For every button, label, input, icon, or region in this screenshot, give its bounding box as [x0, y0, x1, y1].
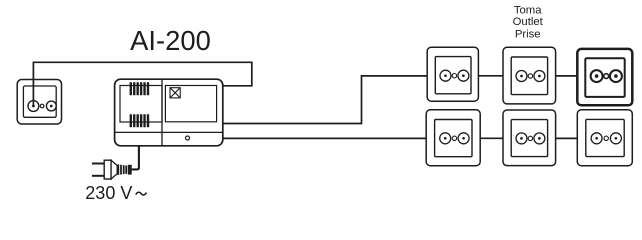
TV outlet J6 (bottom row, second)	[503, 110, 556, 166]
svg-text:230 V: 230 V	[85, 183, 132, 203]
tilde of 230 V~	[136, 192, 147, 195]
TV outlet J3 (top row, second)	[503, 47, 556, 104]
svg-text:Outlet: Outlet	[513, 16, 544, 28]
connector block X2 (bottom terminal strip)	[130, 114, 150, 127]
mains plug P1 (230 V)	[92, 160, 132, 179]
TV outlet J7 (bottom row, third)	[577, 110, 632, 166]
svg-text:AI-200: AI-200	[130, 25, 211, 56]
svg-text:Prise: Prise	[515, 29, 541, 41]
wire W3: amplifier output to bottom outlet row	[223, 137, 427, 139]
TV outlet J2 (top row, first)	[427, 47, 478, 101]
power cord W4 from plug to amplifier	[132, 146, 139, 169]
connector block X1 (top terminal strip)	[130, 82, 150, 95]
amplifier left compartment frame	[120, 86, 162, 123]
wire W8: bottom row outlet 2 to outlet 3	[556, 137, 577, 139]
amplifier U1 AI-200 case	[115, 79, 223, 146]
indicator LED D1 on amplifier	[186, 136, 190, 140]
svg-text:Toma: Toma	[514, 5, 542, 17]
TV outlet J5 (bottom row, first)	[426, 110, 480, 166]
wire W6: top row outlet 2 to outlet 3	[556, 75, 577, 77]
amplifier right compartment frame	[165, 86, 216, 122]
TV wall outlet J1 (left input outlet)	[17, 80, 61, 125]
wire W2: amplifier output to top outlet row	[223, 76, 428, 124]
wire W5: top row outlet 1 to outlet 2	[478, 75, 503, 77]
TV outlet J4 (top row, third, highlighted bold)	[577, 49, 632, 105]
wire W7: bottom row outlet 1 to outlet 2	[480, 137, 503, 139]
antenna mixer symbol (crossed square) inside amplifier	[170, 88, 180, 98]
wire W1 input: wall outlet to amplifier top-right	[33, 62, 251, 106]
